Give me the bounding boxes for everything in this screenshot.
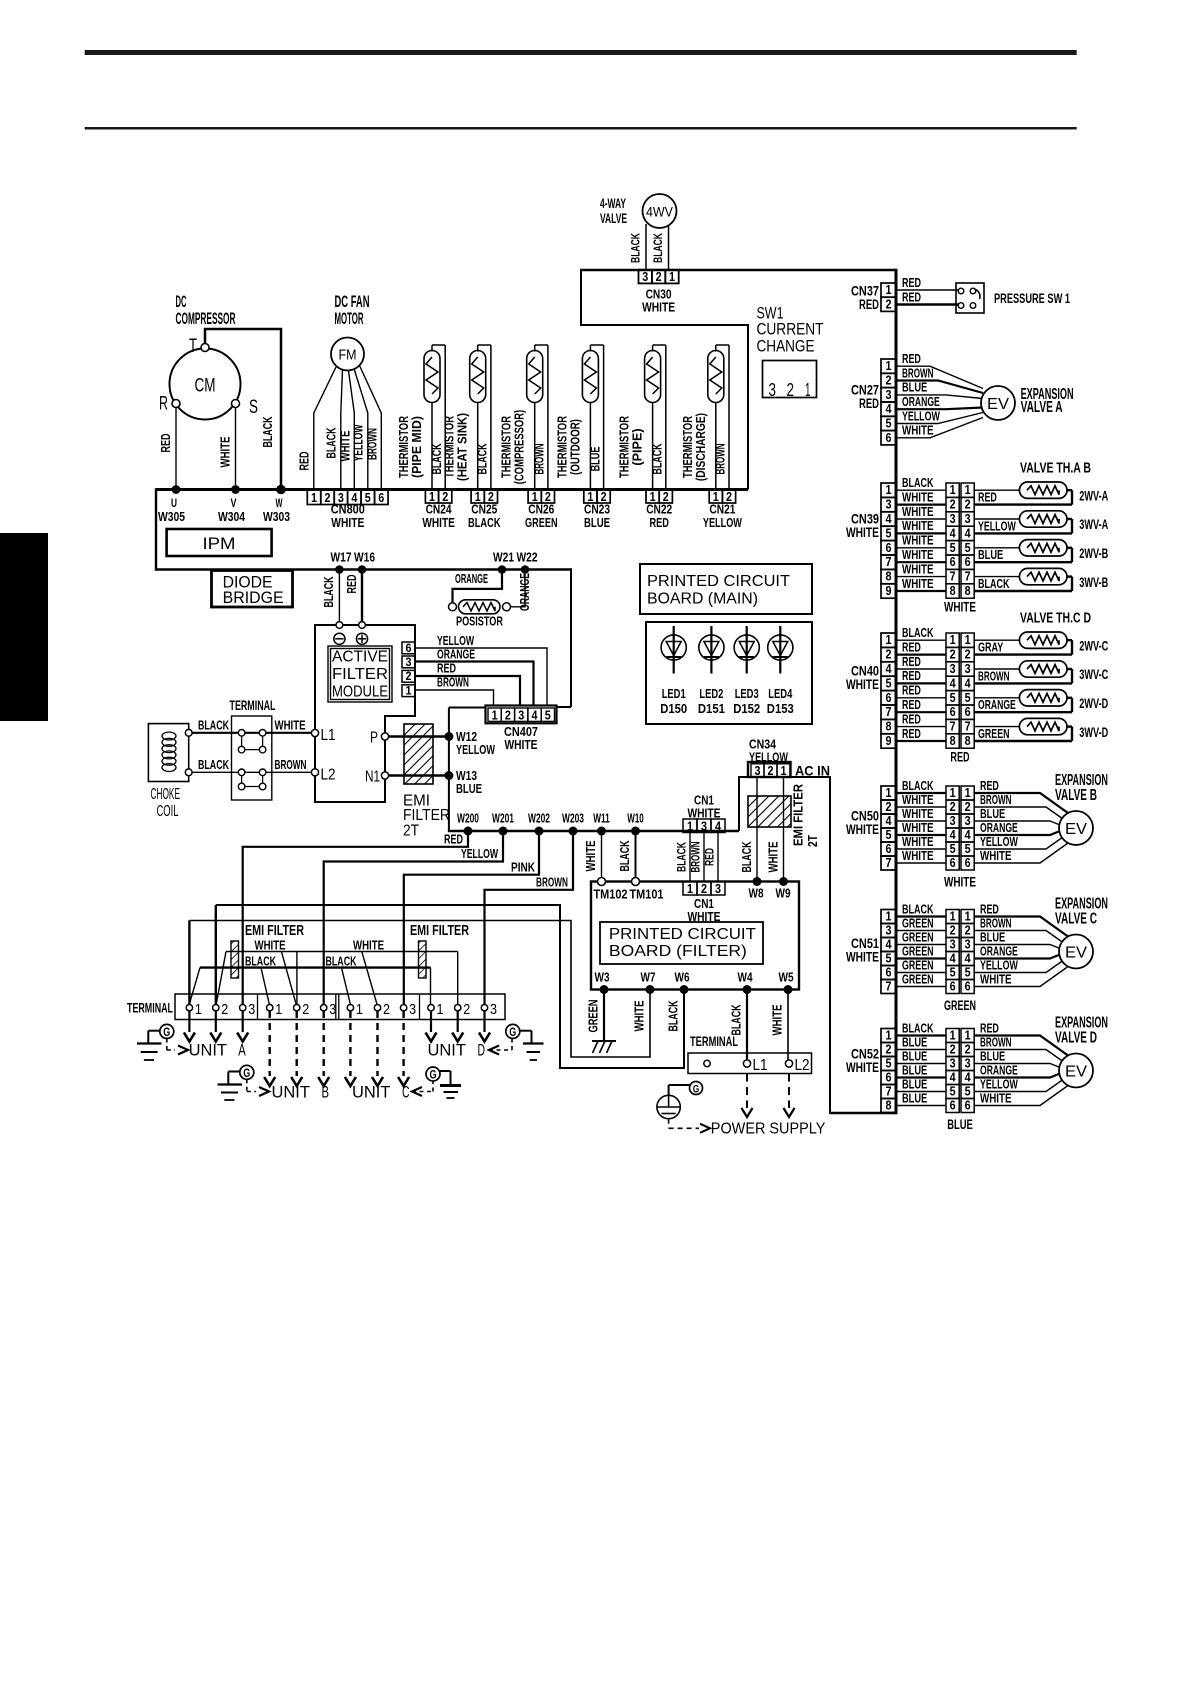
svg-text:WHITE: WHITE: [902, 490, 934, 504]
svg-text:BLACK: BLACK: [902, 902, 934, 916]
svg-text:RED: RED: [902, 684, 921, 698]
svg-text:8: 8: [950, 733, 956, 748]
svg-text:4: 4: [886, 936, 893, 951]
svg-text:5: 5: [886, 675, 892, 690]
svg-text:2: 2: [965, 497, 971, 512]
svg-text:RED: RED: [703, 848, 717, 866]
wire W21 orange: [453, 570, 503, 604]
svg-text:1: 1: [965, 482, 971, 497]
svg-text:1: 1: [886, 482, 892, 497]
svg-text:BLUE: BLUE: [588, 447, 602, 472]
connector CN50: [881, 786, 896, 800]
svg-text:6: 6: [406, 641, 412, 655]
svg-text:4: 4: [965, 950, 972, 965]
terminal A1: [186, 1005, 192, 1011]
svg-text:VALVE: VALVE: [600, 211, 627, 226]
wire CN50 row6 to EV: [974, 843, 1068, 863]
wire W6 black to terminal A2: [216, 905, 684, 1068]
wire fan red: [314, 367, 336, 490]
svg-text:3: 3: [886, 497, 892, 512]
wire CN40 row7: [896, 726, 946, 728]
wire CN39 row7: [896, 576, 946, 578]
motor FM circle: [331, 338, 364, 371]
wire CN51 row3 left: [896, 944, 946, 946]
svg-text:6: 6: [950, 978, 956, 993]
wire G to unit A dashed: [166, 1039, 168, 1051]
svg-text:RED: RED: [159, 434, 173, 453]
junction W21: [498, 565, 507, 574]
svg-text:5: 5: [886, 827, 892, 842]
svg-text:5: 5: [365, 490, 371, 505]
svg-text:1: 1: [311, 490, 317, 505]
terminal R: [172, 400, 180, 408]
svg-text:RED: RED: [980, 902, 999, 916]
expansion valve A circle: [981, 386, 1015, 420]
wire CN52 row1 to EV: [974, 1036, 1068, 1056]
wire CN50 row6 left: [896, 862, 946, 864]
svg-text:THERMISTOR: THERMISTOR: [443, 416, 457, 478]
connector CN37: [881, 283, 896, 297]
svg-text:8: 8: [965, 583, 971, 598]
wire 4WV black left: [645, 224, 647, 270]
svg-text:3: 3: [715, 881, 721, 896]
svg-text:BOARD (FILTER): BOARD (FILTER): [609, 943, 747, 960]
EMI filter right hatched box: [419, 941, 427, 978]
svg-text:W6: W6: [675, 970, 690, 985]
wire choke black upper: [192, 732, 238, 734]
wire CN52 row6 left: [896, 1105, 946, 1107]
svg-text:2: 2: [302, 1001, 309, 1018]
svg-text:5: 5: [965, 841, 971, 856]
terminal minus: [336, 622, 343, 629]
svg-text:RED: RED: [859, 396, 879, 411]
svg-text:BLACK: BLACK: [902, 476, 934, 490]
svg-text:1: 1: [406, 684, 412, 698]
wire CN39 row1: [896, 489, 946, 491]
connector CN34: [748, 762, 791, 778]
EMI filter left hatched box: [231, 941, 239, 978]
svg-text:4: 4: [886, 661, 893, 676]
junction W7: [646, 985, 655, 994]
pin 3 active filter: [402, 656, 415, 668]
svg-text:5: 5: [965, 964, 971, 979]
svg-text:BLACK: BLACK: [198, 719, 229, 733]
valve 4WV circle: [643, 194, 677, 228]
svg-text:6: 6: [965, 704, 971, 719]
svg-text:2: 2: [886, 1041, 892, 1056]
svg-text:4: 4: [965, 525, 972, 540]
svg-text:BLACK: BLACK: [740, 842, 754, 873]
svg-text:TERMINAL: TERMINAL: [690, 1033, 738, 1049]
svg-text:BLACK: BLACK: [325, 428, 339, 459]
svg-text:1: 1: [965, 785, 971, 800]
valve coil 3WV-C: [974, 661, 1072, 684]
svg-text:3: 3: [950, 813, 956, 828]
wire B1 to unit dashed: [269, 1011, 271, 1076]
wire CN50 row4 to EV: [974, 831, 1060, 835]
svg-text:3: 3: [950, 1055, 956, 1070]
svg-text:6: 6: [378, 490, 384, 505]
svg-text:GREEN: GREEN: [525, 515, 558, 530]
thermistor CN26 (COMPRESSOR): [527, 345, 548, 490]
wire S white: [235, 408, 237, 490]
svg-text:3: 3: [965, 813, 971, 828]
wire L2 to power supply dashed: [788, 1074, 790, 1109]
wire C1 to unit dashed: [349, 1011, 351, 1076]
svg-text:6: 6: [886, 690, 892, 705]
junction W3: [600, 985, 609, 994]
svg-text:2: 2: [950, 799, 956, 814]
svg-text:W203: W203: [562, 811, 584, 826]
svg-text:WHITE: WHITE: [846, 950, 879, 965]
svg-text:BROWN: BROWN: [437, 676, 469, 690]
junction W202: [535, 827, 544, 836]
svg-text:3: 3: [642, 269, 648, 284]
junction W305: [172, 485, 181, 494]
svg-text:2: 2: [325, 490, 331, 505]
svg-text:5: 5: [950, 690, 956, 705]
connector CN30: [639, 269, 679, 314]
svg-text:2: 2: [505, 708, 511, 723]
wire CN51 row1 to EV: [974, 917, 1068, 937]
svg-text:4: 4: [950, 1069, 957, 1084]
valve coil 2WV-C: [974, 632, 1072, 655]
svg-text:EMI FILTER: EMI FILTER: [792, 784, 806, 846]
svg-text:L2: L2: [795, 1057, 810, 1074]
svg-text:BROWN: BROWN: [714, 444, 728, 475]
svg-text:BLUE: BLUE: [978, 548, 1003, 562]
arrow unit D: [489, 1046, 499, 1055]
svg-text:WHITE: WHITE: [902, 793, 934, 807]
wire CN27-4 orange: [896, 408, 983, 410]
svg-text:2T: 2T: [806, 835, 820, 847]
expansion valve D circle: [1059, 1054, 1093, 1088]
svg-text:TM102: TM102: [594, 887, 628, 902]
svg-text:D152: D152: [733, 701, 760, 716]
svg-text:L1: L1: [753, 1057, 768, 1074]
svg-text:MOTOR: MOTOR: [335, 310, 364, 328]
svg-text:BROWN: BROWN: [533, 444, 547, 475]
svg-text:2: 2: [965, 647, 971, 662]
svg-text:D150: D150: [660, 701, 687, 716]
svg-text:2T: 2T: [403, 823, 419, 840]
terminal S: [232, 400, 240, 408]
svg-text:5: 5: [950, 540, 956, 555]
module active filter outline: [315, 625, 415, 802]
svg-text:5: 5: [886, 1055, 892, 1070]
svg-text:BROWN: BROWN: [366, 428, 380, 460]
wire CN50 row3 left: [896, 820, 946, 822]
thermistor CN24 (PIPE MID): [424, 345, 445, 490]
svg-text:RED: RED: [978, 491, 997, 505]
terminal B2: [294, 1005, 300, 1011]
wire CN50 row3 to EV: [974, 821, 1060, 825]
svg-text:7: 7: [965, 719, 971, 734]
svg-text:7: 7: [886, 978, 892, 993]
svg-text:1: 1: [195, 1001, 202, 1018]
terminal L2 module: [311, 769, 318, 776]
svg-text:FILTER: FILTER: [332, 666, 388, 683]
svg-text:BLUE: BLUE: [902, 1091, 927, 1105]
wire CN40 row1: [896, 639, 946, 641]
svg-text:3WV-B: 3WV-B: [1079, 574, 1108, 590]
wire W11 white to TM102: [601, 831, 603, 878]
wire D3 to unit: [483, 1011, 485, 1032]
svg-text:TERMINAL: TERMINAL: [127, 1001, 173, 1016]
svg-text:W303: W303: [263, 509, 290, 524]
svg-text:BOARD (MAIN): BOARD (MAIN): [647, 591, 758, 608]
svg-text:2: 2: [965, 922, 971, 937]
terminal strip box: [175, 994, 505, 1020]
svg-text:WHITE: WHITE: [275, 719, 306, 733]
svg-text:C: C: [402, 1084, 410, 1102]
svg-text:COIL: COIL: [157, 803, 179, 820]
terminal L1 module: [311, 729, 318, 736]
svg-text:4: 4: [886, 511, 893, 526]
wire W17 black: [338, 570, 340, 622]
terminal TM101: [632, 878, 640, 886]
svg-text:3: 3: [329, 1001, 336, 1018]
svg-text:1: 1: [687, 819, 693, 834]
svg-text:BLACK: BLACK: [730, 1005, 744, 1036]
svg-text:WHITE: WHITE: [584, 841, 598, 872]
thermistor CN21 (DISCHARGE): [708, 345, 729, 490]
svg-text:6: 6: [965, 554, 971, 569]
svg-text:3: 3: [490, 1001, 497, 1018]
pressure switch PRESSURE SW 1: [956, 283, 984, 313]
svg-text:RED: RED: [902, 727, 921, 741]
pin 1 active filter: [402, 685, 415, 697]
svg-text:WHITE: WHITE: [980, 849, 1012, 863]
svg-text:EV: EV: [1065, 821, 1087, 838]
svg-text:(COMPRESSOR): (COMPRESSOR): [513, 410, 527, 484]
pin 2 active filter: [402, 670, 415, 682]
main PCB right edge: [895, 269, 898, 1114]
svg-text:3: 3: [886, 387, 892, 402]
svg-text:2: 2: [950, 497, 956, 512]
svg-text:WHITE: WHITE: [980, 1091, 1012, 1105]
svg-text:7: 7: [886, 1083, 892, 1098]
ground G power: [690, 1082, 703, 1095]
svg-text:GREEN: GREEN: [902, 972, 934, 986]
wire CN39 row2: [896, 504, 946, 506]
svg-text:G: G: [693, 1084, 700, 1096]
wire CN1 black: [689, 833, 691, 882]
svg-text:BLACK: BLACK: [978, 577, 1010, 591]
svg-text:3: 3: [755, 763, 761, 778]
svg-text:3: 3: [950, 936, 956, 951]
svg-text:WHITE: WHITE: [902, 807, 934, 821]
svg-text:G: G: [509, 1027, 516, 1039]
svg-text:1: 1: [886, 358, 892, 373]
wire W200 red to terminal A3: [243, 831, 468, 1004]
svg-text:WHITE: WHITE: [688, 909, 721, 924]
junction W5: [784, 985, 793, 994]
terminal link lower: [238, 769, 266, 790]
svg-text:6: 6: [965, 1097, 971, 1112]
wire CN39 row3: [896, 518, 946, 520]
header rule thick: [85, 50, 1077, 55]
LED LED4 D153: [767, 626, 794, 716]
svg-text:2WV-B: 2WV-B: [1079, 545, 1108, 561]
junction W203: [569, 827, 578, 836]
wire fan brown: [360, 366, 382, 491]
svg-text:WHITE: WHITE: [331, 515, 364, 530]
svg-text:6: 6: [965, 978, 971, 993]
svg-text:WHITE: WHITE: [255, 939, 286, 953]
wire brown to L2: [266, 771, 312, 773]
svg-text:POWER SUPPLY: POWER SUPPLY: [711, 1121, 826, 1138]
svg-text:BROWN: BROWN: [536, 876, 568, 890]
svg-text:BLUE: BLUE: [584, 515, 610, 530]
wire G to unit C dashed: [412, 1091, 433, 1093]
svg-text:BROWN: BROWN: [689, 842, 703, 873]
wire CN40 row2: [896, 653, 946, 655]
ground G unit B: [240, 1065, 254, 1079]
wire CN39 row4: [896, 532, 946, 534]
terminal B1: [267, 1005, 273, 1011]
svg-text:ORANGE: ORANGE: [980, 944, 1018, 958]
junction W4: [743, 985, 752, 994]
connector CN25: [468, 489, 501, 530]
wire CN27-6 white: [896, 418, 983, 438]
svg-text:ORANGE: ORANGE: [518, 573, 532, 611]
earth unit C: [440, 1084, 461, 1087]
svg-text:1: 1: [437, 1001, 444, 1018]
svg-text:EV: EV: [1065, 945, 1087, 962]
svg-text:YELLOW: YELLOW: [703, 515, 743, 530]
svg-text:2WV-C: 2WV-C: [1079, 637, 1108, 653]
svg-text:4: 4: [950, 827, 957, 842]
svg-text:UNIT: UNIT: [352, 1084, 390, 1102]
EMI filter 2T board outline: [739, 777, 830, 1114]
svg-text:BLACK: BLACK: [476, 443, 490, 474]
svg-text:LED4: LED4: [768, 686, 793, 701]
posistor: [449, 600, 511, 614]
svg-text:WHITE: WHITE: [902, 835, 934, 849]
wire CN52 row4 left: [896, 1076, 946, 1078]
svg-text:BLACK: BLACK: [902, 779, 934, 793]
svg-text:CHANGE: CHANGE: [757, 338, 815, 356]
terminal C2: [374, 1005, 380, 1011]
svg-text:W11: W11: [593, 811, 610, 826]
wire bus2 corner down to CN407: [570, 568, 572, 707]
svg-text:6: 6: [965, 855, 971, 870]
junction W8: [753, 877, 762, 886]
svg-text:4: 4: [950, 525, 957, 540]
svg-text:6: 6: [886, 540, 892, 555]
svg-text:WHITE: WHITE: [846, 677, 879, 692]
junction W10: [631, 827, 640, 836]
svg-text:RED: RED: [902, 655, 921, 669]
svg-text:TERMINAL: TERMINAL: [230, 697, 276, 713]
svg-text:4: 4: [886, 813, 893, 828]
wire G to unit D dashed: [489, 1049, 512, 1051]
svg-text:5: 5: [950, 1083, 956, 1098]
svg-text:UNIT: UNIT: [189, 1041, 227, 1059]
wire white interunit: [216, 951, 457, 1006]
connector CN51: [881, 910, 896, 924]
svg-text:D153: D153: [767, 701, 794, 716]
svg-text:A: A: [238, 1041, 246, 1059]
wire CN51 row2 to EV: [974, 931, 1063, 943]
svg-text:YELLOW: YELLOW: [456, 742, 496, 757]
wire CN52 row2 left: [896, 1049, 946, 1051]
svg-text:T: T: [189, 336, 197, 357]
connector CN27: [881, 359, 896, 373]
expansion valve C circle: [1059, 935, 1093, 969]
connector CN24: [422, 489, 455, 530]
svg-text:G: G: [430, 1070, 437, 1082]
svg-text:VALVE B: VALVE B: [1055, 787, 1097, 804]
svg-text:3: 3: [701, 819, 707, 834]
svg-text:RED: RED: [902, 640, 921, 654]
wire CN52 row3 to EV: [974, 1064, 1060, 1068]
page edge tab: [0, 533, 48, 721]
svg-text:3WV-C: 3WV-C: [1079, 666, 1108, 682]
svg-text:4: 4: [715, 819, 722, 834]
terminal TM102: [598, 878, 606, 886]
svg-text:WHITE: WHITE: [846, 525, 879, 540]
svg-text:W200: W200: [457, 811, 479, 826]
svg-text:YELLOW: YELLOW: [352, 424, 366, 461]
svg-text:VALVE D: VALVE D: [1055, 1030, 1097, 1047]
svg-text:BROWN: BROWN: [980, 1035, 1012, 1049]
svg-text:YELLOW: YELLOW: [980, 835, 1018, 849]
svg-text:W8: W8: [749, 886, 764, 901]
svg-text:R: R: [159, 394, 168, 415]
svg-text:BROWN: BROWN: [978, 669, 1010, 683]
svg-text:YELLOW: YELLOW: [978, 519, 1016, 533]
svg-text:BLUE: BLUE: [902, 1049, 927, 1063]
svg-text:LED2: LED2: [699, 686, 723, 701]
svg-text:CURRENT: CURRENT: [757, 321, 824, 339]
svg-text:WHITE: WHITE: [902, 821, 934, 835]
svg-text:2: 2: [886, 296, 892, 311]
svg-text:RED: RED: [859, 297, 879, 312]
svg-text:BLUE: BLUE: [902, 1063, 927, 1077]
svg-text:7: 7: [950, 569, 956, 584]
svg-text:FILTER: FILTER: [403, 807, 450, 824]
svg-text:8: 8: [965, 733, 971, 748]
svg-text:BLUE: BLUE: [947, 1117, 973, 1132]
svg-text:BLACK: BLACK: [629, 233, 643, 263]
svg-text:BRIDGE: BRIDGE: [223, 588, 284, 607]
wire T black: [205, 329, 281, 488]
chassis ground: [592, 1040, 616, 1042]
svg-text:RED: RED: [649, 515, 669, 530]
svg-text:EV: EV: [987, 396, 1009, 413]
junction W17: [335, 565, 344, 574]
wire black interunit: [189, 967, 430, 1006]
svg-text:W7: W7: [641, 970, 656, 985]
junction W304: [231, 485, 240, 494]
earth unit D: [523, 1042, 544, 1044]
svg-text:W: W: [276, 496, 283, 510]
terminal block box: [232, 716, 272, 800]
svg-text:POSISTOR: POSISTOR: [456, 615, 503, 629]
svg-text:DC: DC: [176, 293, 187, 311]
svg-text:1: 1: [950, 908, 956, 923]
wire CN51 row6 left: [896, 986, 946, 988]
connector CN800: [307, 490, 388, 530]
svg-text:BLACK: BLACK: [198, 758, 229, 772]
terminal L2 power: [785, 1060, 792, 1067]
wire yellow pin6 to CN407-5: [415, 648, 547, 706]
svg-text:BLACK: BLACK: [618, 841, 632, 872]
svg-text:DC FAN: DC FAN: [335, 293, 370, 311]
wire C2 to unit dashed: [376, 1011, 378, 1076]
